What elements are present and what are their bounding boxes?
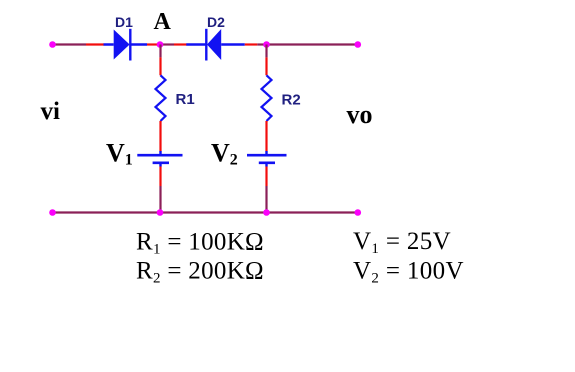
wire red segment to R1 top — [159, 57, 161, 75]
node A junction dot — [157, 41, 164, 48]
junction dot top right — [263, 41, 270, 48]
diode D2 cathode bar — [205, 29, 207, 61]
wire top-left maroon segment — [53, 43, 86, 45]
diode D1 anode lead — [104, 43, 114, 46]
wire maroon segment to bottom rail — [159, 186, 161, 213]
bottom rail wire — [53, 211, 357, 213]
diode D2 triangle — [207, 29, 221, 60]
terminal dot top-right — [355, 41, 362, 48]
wire node A down maroon segment — [159, 45, 161, 58]
svg-text:vi: vi — [41, 98, 61, 125]
wire red segment R2 to V2 — [265, 121, 267, 152]
wire red segment after D2 — [245, 43, 257, 45]
svg-text:D1: D1 — [115, 14, 133, 30]
resistor R2 zigzag — [262, 75, 272, 121]
wire red segment to R2 top — [265, 57, 267, 75]
svg-text:V2 = 100V: V2 = 100V — [353, 258, 464, 287]
svg-text:V1 = 25V: V1 = 25V — [353, 228, 451, 257]
wire maroon segment node A to right — [161, 43, 174, 45]
battery V1 negative pin stub — [159, 163, 161, 167]
wire top-left red segment — [86, 43, 104, 45]
battery V1 negative plate — [153, 161, 169, 164]
wire red segment V1 down — [159, 167, 161, 187]
resistor R1 zigzag — [156, 75, 166, 121]
wire top-right maroon segment — [267, 43, 358, 45]
junction dot bottom V2 — [263, 209, 270, 216]
svg-text:R1: R1 — [176, 91, 195, 108]
wire red segment V2 down — [265, 167, 267, 187]
wire maroon segment to bottom rail right — [265, 186, 267, 213]
battery V2 positive pin stub — [265, 151, 267, 155]
diode D1 cathode bar — [129, 29, 131, 61]
terminal dot bottom-right — [355, 209, 362, 216]
svg-text:V1: V1 — [106, 138, 133, 168]
wire node vo-junction down maroon segment — [265, 45, 267, 58]
diode D2 anode lead — [221, 43, 245, 46]
terminal dot bottom-left — [49, 209, 56, 216]
svg-text:D2: D2 — [207, 14, 225, 30]
svg-text:vo: vo — [347, 100, 373, 129]
battery V2 negative pin stub — [265, 163, 267, 167]
svg-text:V2: V2 — [211, 138, 238, 168]
wire red segment before D2 — [174, 43, 187, 45]
wire red segment D1 to node A — [147, 43, 158, 45]
diode D2 cathode lead — [186, 43, 206, 46]
diode D1 triangle — [114, 30, 130, 60]
battery V2 positive plate — [247, 154, 287, 157]
junction dot bottom V1 — [157, 209, 164, 216]
svg-text:A: A — [154, 9, 172, 35]
svg-text:R2 = 200KΩ: R2 = 200KΩ — [136, 258, 264, 287]
battery V2 negative plate — [259, 161, 275, 164]
diode D1 cathode lead — [130, 43, 147, 46]
terminal dot top-left — [49, 41, 56, 48]
wire red segment R1 to V1 — [159, 121, 161, 152]
battery V1 positive pin stub — [159, 151, 161, 155]
wire maroon segment to node vo junction — [257, 43, 266, 45]
battery V1 positive plate — [137, 154, 182, 157]
svg-text:R2: R2 — [282, 92, 301, 109]
svg-text:R1 = 100KΩ: R1 = 100KΩ — [136, 229, 264, 258]
